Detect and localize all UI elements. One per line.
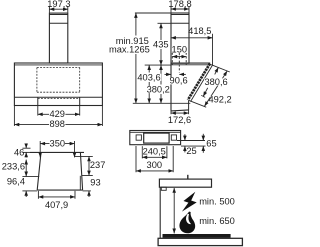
wall line [159, 187, 161, 238]
dim 197,3 extension lines [48, 6, 50, 13]
dim 350 line [40, 143, 74, 145]
dim 197,3 line with arrows [49, 8, 67, 10]
hood body (front) [14, 63, 102, 106]
svg-text:min. 500: min. 500 [199, 197, 235, 207]
svg-text:max.1265: max.1265 [109, 44, 150, 54]
duct dashed lines [172, 53, 186, 73]
label max.1265 [109, 44, 151, 54]
dim 93 bottom arrow [88, 191, 90, 197]
body divider line [14, 96, 102, 98]
label 150 [172, 45, 188, 55]
lightning bolt [180, 189, 199, 215]
dim 429 extension lines [37, 105, 39, 115]
237 top ext [75, 155, 93, 157]
plate outline [30, 152, 84, 190]
dashed inner box [37, 68, 80, 93]
svg-text:93: 93 [90, 178, 100, 188]
label 300 [147, 160, 163, 170]
dim 492,2 line [205, 71, 228, 106]
dim 429 line [38, 113, 80, 115]
bracket central rect [144, 133, 169, 143]
svg-text:96,4: 96,4 [7, 177, 25, 187]
label 898 [49, 119, 65, 129]
dim 407,9 line [38, 196, 75, 198]
ext line from glass bottom corner [189, 100, 207, 107]
dim 237 line [88, 156, 90, 175]
dim 172,6 line [171, 112, 189, 114]
bottom edge ext left [22, 190, 37, 192]
top edge extension left [22, 151, 30, 153]
chimney telescopic joint line [49, 22, 67, 24]
dim 407,9 extensions [37, 191, 39, 199]
dim 90,6 arrows [165, 73, 172, 75]
lower ext line from bracket bottom [181, 145, 206, 147]
dim 418,5 right extension [212, 34, 214, 65]
min915 top extension line [135, 12, 171, 14]
dim 418,5 line [171, 37, 213, 39]
body second top line [14, 64, 102, 66]
svg-text:407,9: 407,9 [45, 200, 68, 210]
svg-text:min. 650: min. 650 [199, 216, 235, 226]
dim 403,6 line [148, 65, 150, 72]
flame [179, 212, 195, 234]
46 upper ext line [22, 147, 30, 149]
chimney (side) [171, 13, 189, 63]
upper ext line from right square [177, 140, 205, 142]
label 429 [49, 109, 65, 119]
dim 350 extensions with slot arrows [39, 141, 41, 157]
clearance dim line [173, 188, 175, 234]
dim 240,5 line [142, 156, 167, 158]
back wall edge [170, 63, 172, 111]
svg-text:240,5: 240,5 [143, 146, 166, 156]
min915 bottom extension line [133, 102, 191, 104]
label 380,2 [146, 85, 170, 95]
dim 178,8 extension lines [170, 6, 172, 13]
svg-text:380,6: 380,6 [204, 77, 227, 87]
counter tray [158, 238, 242, 245]
svg-text:233,6: 233,6 [2, 162, 25, 172]
chimney top cap line [49, 14, 67, 16]
min915/max1265 dim line (broken by text) [135, 13, 137, 36]
chimney side joint [171, 22, 189, 24]
dim 898 extension lines [13, 105, 15, 126]
dim 25 arrows [184, 134, 186, 140]
dim 150 line [172, 56, 186, 58]
svg-text:418,5: 418,5 [188, 26, 211, 36]
bracket outer rect [130, 131, 181, 145]
dim 65 arrows [202, 134, 204, 141]
ext line from glass top corner [213, 65, 230, 72]
hood bottom line [171, 110, 189, 111]
svg-text:90,6: 90,6 [170, 76, 188, 86]
left stub under bar [161, 187, 166, 190]
dim 96,4 bottom arrow [25, 191, 27, 197]
chimney stub [187, 175, 189, 180]
bottom ext right [83, 190, 91, 192]
svg-text:172,6: 172,6 [168, 115, 191, 125]
chimney (front) [49, 13, 67, 63]
label 403,6 [137, 72, 161, 82]
glass bottom front vertical [188, 100, 190, 110]
glass outer line [191, 65, 213, 102]
label 240,5 [143, 146, 166, 156]
dim 240,5 extensions [141, 146, 143, 158]
svg-text:380,2: 380,2 [147, 85, 170, 95]
label 492,2 [208, 94, 231, 104]
svg-text:178,8: 178,8 [168, 0, 191, 9]
lower narrow section verticals [37, 97, 39, 105]
237 bottom ext (right step) [82, 175, 93, 177]
chimney side top cap [171, 14, 189, 16]
tick at 380,6 lower end [201, 95, 205, 97]
label 90,6 [169, 76, 188, 86]
svg-text:197,3: 197,3 [47, 0, 70, 9]
435 top extension (joint extended) [158, 22, 172, 24]
hood bar [159, 179, 211, 187]
dim 300 line [136, 170, 173, 172]
bracket left square [136, 135, 141, 140]
svg-text:898: 898 [49, 119, 65, 129]
dim 178,8 line [171, 8, 189, 10]
dim 233,6 line [25, 160, 27, 177]
svg-text:25: 25 [186, 146, 196, 156]
svg-text:237: 237 [90, 160, 106, 170]
drawing line group [14, 6, 242, 246]
dim 380,6 line [215, 68, 219, 75]
dim 172,6 extensions [170, 111, 172, 114]
403,6 top extension [145, 64, 171, 66]
inner tab line right [79, 176, 81, 190]
glass panel thick band (hatched) [188, 64, 210, 100]
cooktop dark band [163, 234, 231, 238]
svg-text:350: 350 [50, 139, 66, 149]
svg-text:403,6: 403,6 [137, 72, 160, 82]
svg-text:150: 150 [172, 45, 188, 55]
233,6 bottom ext (left step) [22, 176, 39, 178]
label 380,6 [204, 77, 228, 87]
svg-text:46: 46 [14, 147, 24, 157]
svg-text:300: 300 [147, 160, 163, 170]
svg-text:429: 429 [49, 109, 65, 119]
svg-text:435: 435 [153, 40, 169, 50]
hidden dashed line below divider [38, 97, 80, 99]
dim 380,2 line [160, 65, 162, 84]
dim 46 arrows [25, 143, 27, 148]
dim 435 line [160, 23, 162, 40]
label min.915 [115, 36, 150, 46]
label 350 [50, 139, 66, 149]
svg-text:492,2: 492,2 [208, 94, 231, 104]
label 435 [153, 40, 169, 50]
body top line to glass top [171, 62, 210, 64]
bracket right square [171, 135, 176, 140]
body second top line [171, 64, 213, 66]
dim 300 extensions [135, 146, 137, 172]
dim 898 line [14, 124, 102, 126]
svg-text:65: 65 [206, 138, 216, 148]
